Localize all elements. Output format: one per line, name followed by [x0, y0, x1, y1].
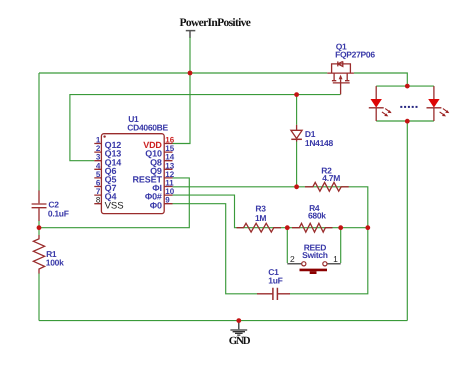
- wire C1 right to R2 bottom: [290, 228, 368, 294]
- wire LED bottom to bottom rail: [406, 121, 408, 320]
- svg-text:8: 8: [96, 196, 101, 205]
- junction node: R4/reed pin1: [338, 225, 343, 230]
- port PowerInPositive label: [180, 17, 251, 29]
- U1 left pin names: [105, 140, 124, 211]
- capacitor C2: [32, 191, 69, 222]
- svg-text:PowerInPositive: PowerInPositive: [180, 17, 251, 29]
- svg-text:1M: 1M: [255, 213, 266, 223]
- wire Q14 pin3 net to D1 and Q1 gate: [70, 95, 341, 161]
- junction node: GND tap: [236, 318, 241, 323]
- wire reed pin1 drop: [340, 228, 342, 263]
- svg-text:680k: 680k: [308, 210, 326, 220]
- wire C2 to R1 junction: [38, 221, 40, 236]
- wire pin11 net to R2 and down to row: [173, 187, 368, 228]
- U1 right pin numbers: [165, 136, 174, 205]
- svg-text:CD4060BE: CD4060BE: [127, 122, 168, 132]
- svg-text:0.1uF: 0.1uF: [48, 208, 69, 218]
- svg-text:4.7M: 4.7M: [322, 173, 340, 183]
- svg-text:GND: GND: [229, 335, 251, 347]
- wire RESET net: pin12 to C2/R1 junction: [39, 178, 189, 228]
- wire LED box top edge: [376, 85, 434, 87]
- capacitor C1: [257, 267, 290, 300]
- LED D3 (right): [427, 86, 450, 121]
- wire pin10 net to R3: [173, 195, 238, 228]
- transistor Q1 FQP27P06: [327, 41, 375, 94]
- wire pin9 net to C1: [173, 204, 258, 294]
- wire bottom rail: [39, 320, 407, 322]
- junction node: R2/C1 right: [365, 225, 370, 230]
- wire row R3/R4 segment: [237, 227, 368, 229]
- port pin marker (grey T): [186, 31, 196, 38]
- wire top rail right to LED top: [354, 73, 407, 86]
- U1 left pin numbers: [96, 136, 101, 205]
- ellipsis dots between LEDs: [400, 106, 417, 108]
- U1 left pin stubs 1-8: [94, 144, 101, 204]
- wire reed pin2 drop: [286, 228, 288, 263]
- diode D1 1N4148: [291, 125, 334, 148]
- junction node: LED top: [405, 84, 410, 89]
- wire LED box bottom edge: [376, 120, 434, 122]
- ground symbol GND: [229, 321, 251, 347]
- junction node: power rail / pin16: [188, 71, 193, 76]
- svg-text:1uF: 1uF: [268, 276, 282, 286]
- resistor R3: [237, 204, 282, 233]
- wire PowerInPositive vertical to pin16: [173, 37, 191, 144]
- svg-text:FQP27P06: FQP27P06: [335, 50, 375, 60]
- svg-text:VSS: VSS: [105, 200, 124, 211]
- junction node: C2/R1/RESET: [37, 225, 42, 230]
- svg-text:2: 2: [290, 254, 295, 264]
- svg-text:1N4148: 1N4148: [305, 138, 334, 148]
- junction node: R3/R4/reed pin2: [285, 225, 290, 230]
- resistor R2: [305, 165, 349, 191]
- resistor R1: [33, 235, 64, 274]
- wire D1 cathode to pin11 net: [296, 141, 298, 187]
- LED D2 (left): [369, 86, 392, 121]
- U1 right pin names: [133, 140, 163, 210]
- junction node: LED bottom: [405, 119, 410, 124]
- junction node: D1 cathode / R2 / pin11: [294, 184, 299, 189]
- resistor R4: [292, 203, 333, 232]
- U1 right pin stubs 9-16: [164, 144, 172, 204]
- junction node: D1 anode on gate net: [294, 92, 299, 97]
- IC U1 CD4060BE body: [101, 114, 168, 214]
- svg-text:1: 1: [333, 254, 338, 264]
- svg-text:Switch: Switch: [302, 250, 328, 260]
- svg-text:Φ0: Φ0: [150, 200, 162, 210]
- wire R1 to bottom rail: [38, 273, 40, 321]
- wire top rail left: [39, 72, 327, 74]
- wire D1 anode stub: [296, 95, 298, 125]
- svg-text:9: 9: [165, 196, 170, 205]
- svg-text:100k: 100k: [46, 258, 64, 268]
- wire left rail upper (to C2): [38, 73, 40, 191]
- reed switch S1: [287, 243, 340, 274]
